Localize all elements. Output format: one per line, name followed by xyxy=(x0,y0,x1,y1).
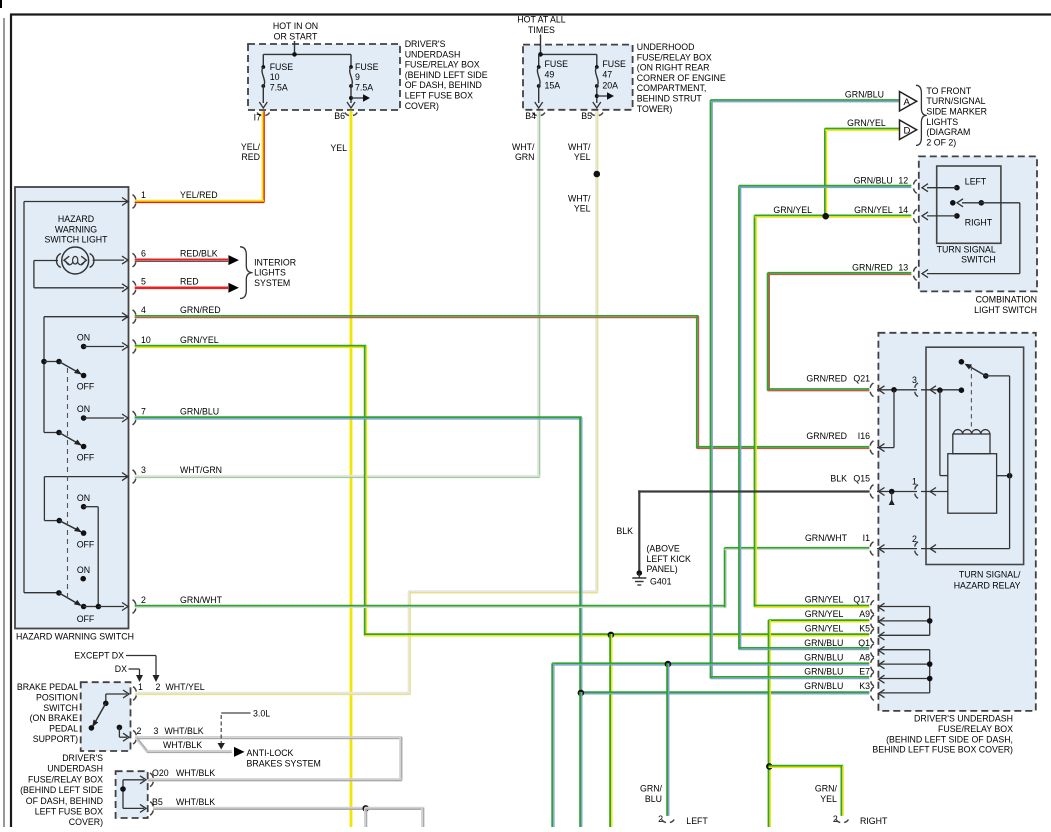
combination light switch box xyxy=(919,156,1037,291)
svg-text:GRN/YEL: GRN/YEL xyxy=(847,118,886,128)
svg-text:2: 2 xyxy=(156,682,161,692)
triangle connector D xyxy=(900,120,917,140)
turn signal switch inner box xyxy=(937,166,1001,243)
switch 1 (pin 10) xyxy=(41,333,128,392)
fuse 10 7.5A xyxy=(261,54,293,103)
svg-text:PEDAL: PEDAL xyxy=(49,724,78,734)
svg-text:DRIVER'S: DRIVER'S xyxy=(62,753,103,763)
wire GRN/RED pin 13 xyxy=(768,273,912,391)
svg-text:LIGHT SWITCH: LIGHT SWITCH xyxy=(974,305,1037,315)
wire GRN/BLU A8 down + rear left xyxy=(552,663,869,828)
svg-text:BEHIND LEFT FUSE BOX COVER): BEHIND LEFT FUSE BOX COVER) xyxy=(872,745,1013,755)
switch 3 (pin 3) xyxy=(44,493,98,607)
svg-text:LIGHTS: LIGHTS xyxy=(254,268,286,278)
connector K5 xyxy=(805,624,885,643)
svg-text:2: 2 xyxy=(658,814,663,824)
driver underdash fuse/relay box (top) xyxy=(248,44,400,110)
svg-text:GRN/BLU: GRN/BLU xyxy=(804,652,843,662)
svg-text:FUSE/RELAY BOX: FUSE/RELAY BOX xyxy=(405,60,480,70)
wire RED/BLK pin 6 to interior lights xyxy=(135,255,239,265)
connector 13 xyxy=(852,263,917,281)
driver underdash fuse/relay box (right, with relay) xyxy=(878,333,1035,711)
connector O20 xyxy=(150,768,215,787)
svg-text:RIGHT: RIGHT xyxy=(965,218,993,228)
svg-text:2: 2 xyxy=(141,595,146,605)
hazard pin 7 connector + label GRN/BLU xyxy=(133,407,220,425)
svg-text:B4: B4 xyxy=(525,111,536,121)
svg-text:DX: DX xyxy=(115,664,127,674)
svg-text:I7: I7 xyxy=(254,113,261,123)
svg-text:14: 14 xyxy=(898,205,908,215)
svg-text:GRN/RED: GRN/RED xyxy=(180,305,221,315)
junction GRN/YEL rear right xyxy=(766,763,843,816)
label TO FRONT TURN/SIGNAL SIDE MARKER LIGHTS xyxy=(926,86,987,147)
svg-text:BRAKE PEDAL: BRAKE PEDAL xyxy=(17,682,78,692)
svg-text:4: 4 xyxy=(141,305,146,315)
svg-text:YEL/RED: YEL/RED xyxy=(180,190,218,200)
svg-text:PANEL): PANEL) xyxy=(647,564,678,574)
hazard pin 4 connector + label GRN/RED xyxy=(133,305,221,323)
wire GRN/BLU to connector A xyxy=(710,100,898,679)
fuse 47 20A xyxy=(595,54,626,103)
connector 14 xyxy=(773,205,916,223)
connector Q21 xyxy=(806,374,917,448)
hazard pin 6 connector + label RED/BLK xyxy=(133,249,218,267)
connector 2 rear LEFT xyxy=(658,814,708,826)
turn signal LEFT contact xyxy=(922,177,987,192)
svg-text:Q17: Q17 xyxy=(853,595,870,605)
connector B4 xyxy=(525,102,545,121)
svg-text:FUSE/RELAY BOX: FUSE/RELAY BOX xyxy=(637,52,712,62)
svg-text:EXCEPT DX: EXCEPT DX xyxy=(74,651,124,661)
connector 12 xyxy=(854,176,917,194)
feed wire underhood xyxy=(538,35,597,57)
wire GRN/RED pin 4 to I16 (end) + connector I16 xyxy=(806,431,894,454)
label GRN/BLU (A) xyxy=(845,90,884,100)
svg-text:49: 49 xyxy=(545,70,555,80)
hazard pin 3 connector + label WHT/GRN xyxy=(133,465,223,483)
brake pedal position switch box xyxy=(81,682,131,751)
svg-text:BLK: BLK xyxy=(830,474,847,484)
svg-text:E7: E7 xyxy=(859,667,870,677)
svg-text:SUPPORT): SUPPORT) xyxy=(33,734,78,744)
svg-text:3: 3 xyxy=(154,726,159,736)
ground G401 xyxy=(632,570,646,585)
svg-text:FUSE/RELAY BOX: FUSE/RELAY BOX xyxy=(28,774,103,784)
svg-text:2 OF 2): 2 OF 2) xyxy=(926,137,956,147)
wire GRN/YEL pin 14 xyxy=(754,213,911,607)
label WHT/GRN vertical xyxy=(512,142,535,162)
turn signal hazard relay inner box xyxy=(926,347,1024,564)
underhood fuse/relay box xyxy=(523,45,633,110)
svg-text:WHT/BLK: WHT/BLK xyxy=(165,726,204,736)
svg-text:(BEHIND LEFT SIDE OF DASH,: (BEHIND LEFT SIDE OF DASH, xyxy=(886,734,1013,744)
wire BLK Q15 ground xyxy=(638,490,869,574)
relay bracket Q17-A9-K5 xyxy=(879,607,933,636)
wire GRN/YEL Q17 from pin 14 riser xyxy=(754,606,869,608)
underdash box internals xyxy=(120,776,146,813)
hazard pin 2 connector + label GRN/WHT xyxy=(133,595,223,613)
svg-text:YEL: YEL xyxy=(330,143,347,153)
svg-text:YEL: YEL xyxy=(574,152,591,162)
wire WHT/BLK from B5 heading down xyxy=(153,805,424,828)
svg-text:(BEHIND LEFT SIDE: (BEHIND LEFT SIDE xyxy=(405,70,488,80)
svg-text:TO FRONT: TO FRONT xyxy=(926,86,971,96)
relay pin 3 xyxy=(912,375,964,397)
svg-text:TURN/SIGNAL: TURN/SIGNAL xyxy=(926,96,985,106)
connector A8 xyxy=(804,652,884,671)
connector Q17 xyxy=(805,595,885,614)
svg-text:12: 12 xyxy=(898,176,908,186)
feed wire from HOT label xyxy=(263,41,351,57)
svg-text:ON: ON xyxy=(77,404,90,414)
caption driver underdash fuse box xyxy=(405,39,488,111)
brace interior lights xyxy=(240,247,253,299)
hazard pin 10 connector + label GRN/YEL xyxy=(133,335,219,353)
svg-text:LIGHTS: LIGHTS xyxy=(926,117,958,127)
svg-text:7.5A: 7.5A xyxy=(355,82,373,92)
svg-text:3: 3 xyxy=(141,465,146,475)
label INTERIOR LIGHTS SYSTEM xyxy=(254,257,296,288)
wire YEL/RED from I7 to hazard pin 1 xyxy=(135,111,265,202)
relay pin 2 xyxy=(912,534,936,555)
svg-text:(BEHIND LEFT SIDE: (BEHIND LEFT SIDE xyxy=(20,785,103,795)
svg-text:13: 13 xyxy=(898,263,908,273)
turn signal feed line to pin 13 xyxy=(922,203,1020,278)
switch 2 (pin 7) xyxy=(44,404,128,463)
svg-text:OR START: OR START xyxy=(274,31,318,41)
svg-text:(ON RIGHT REAR: (ON RIGHT REAR xyxy=(637,63,710,73)
wire GRN/YEL to connector D xyxy=(825,128,899,217)
svg-text:YEL: YEL xyxy=(574,204,591,214)
connector B6 xyxy=(334,102,357,121)
svg-text:GRN/BLU: GRN/BLU xyxy=(845,90,884,100)
svg-text:9: 9 xyxy=(355,72,360,82)
svg-text:FUSE: FUSE xyxy=(270,62,294,72)
svg-text:A9: A9 xyxy=(859,609,870,619)
svg-text:TIMES: TIMES xyxy=(528,25,555,35)
brake switch connector pins 1/2 xyxy=(133,682,205,700)
svg-text:OFF: OFF xyxy=(77,382,95,392)
connector I1 xyxy=(805,533,917,555)
svg-text:GRN/YEL: GRN/YEL xyxy=(805,595,844,605)
svg-text:WHT/: WHT/ xyxy=(568,142,591,152)
label BLK xyxy=(616,526,633,536)
svg-text:BEHIND STRUT: BEHIND STRUT xyxy=(637,94,703,104)
label GRN/BLU rear left xyxy=(640,784,663,804)
svg-text:GRN/RED: GRN/RED xyxy=(806,374,847,384)
wire GRN/WHT pin 2 to I1 xyxy=(135,548,870,608)
wire WHT/GRN from B4 to hazard pin 3 xyxy=(135,111,540,477)
wire WHT/BLK brake switch to ABS and O20 xyxy=(135,737,402,781)
wire GRN/BLU Q1 from pin 12 riser xyxy=(739,648,869,650)
pin 3 internal wire xyxy=(44,473,128,521)
label WHT/YEL lower xyxy=(568,194,591,214)
svg-text:Q21: Q21 xyxy=(853,374,870,384)
svg-text:ON: ON xyxy=(77,565,90,575)
svg-text:1: 1 xyxy=(141,190,146,200)
wire GRN/RED pin 4 to I16 xyxy=(135,316,870,449)
wire YEL from B6 down off page xyxy=(350,111,353,829)
label ANTI-LOCK BRAKES SYSTEM xyxy=(247,748,321,768)
svg-text:GRN/BLU: GRN/BLU xyxy=(804,681,843,691)
svg-text:UNDERHOOD: UNDERHOOD xyxy=(637,42,695,52)
svg-text:TURN SIGNAL/: TURN SIGNAL/ xyxy=(959,570,1021,580)
fuse 9 branch arrow xyxy=(349,94,370,102)
svg-text:6: 6 xyxy=(141,249,146,259)
junction WHT/YEL xyxy=(594,171,601,178)
svg-text:ON: ON xyxy=(77,333,90,343)
connector B5 xyxy=(581,102,603,121)
connector K3 xyxy=(804,681,884,700)
svg-text:WHT/BLK: WHT/BLK xyxy=(176,768,215,778)
wire WHT/YEL from B5 to brake pedal switch xyxy=(135,111,598,694)
arrow anti-lock brakes system xyxy=(234,747,245,757)
label HOT IN ON OR START xyxy=(273,21,318,41)
svg-text:3.0L: 3.0L xyxy=(253,709,270,719)
svg-text:LEFT FUSE BOX: LEFT FUSE BOX xyxy=(35,807,103,817)
svg-text:GRN/BLU: GRN/BLU xyxy=(804,638,843,648)
svg-text:47: 47 xyxy=(602,70,612,80)
svg-text:1: 1 xyxy=(912,477,917,487)
svg-text:10: 10 xyxy=(270,72,280,82)
svg-text:15A: 15A xyxy=(545,80,561,90)
relay bracket Q1-A8-E7-K3 xyxy=(879,650,933,693)
junction GRN/BLU K3 branch down xyxy=(578,690,585,828)
svg-text:INTERIOR: INTERIOR xyxy=(254,257,296,267)
svg-text:B6: B6 xyxy=(334,111,345,121)
svg-text:7.5A: 7.5A xyxy=(270,82,288,92)
svg-text:SWITCH: SWITCH xyxy=(43,703,78,713)
hazard warning switch box xyxy=(15,187,129,629)
svg-text:FUSE: FUSE xyxy=(355,62,379,72)
label DX xyxy=(115,664,143,682)
svg-text:GRN/: GRN/ xyxy=(640,784,663,794)
driver underdash fuse/relay box (bottom) xyxy=(116,771,148,818)
svg-text:GRN: GRN xyxy=(515,152,535,162)
svg-text:(ON BRAKE: (ON BRAKE xyxy=(30,713,79,723)
relay coil xyxy=(953,430,990,454)
wire GRN/YEL A9 riser to rear right xyxy=(768,620,869,828)
label ABOVE LEFT KICK PANEL G401 xyxy=(647,544,691,587)
svg-text:OF DASH, BEHIND: OF DASH, BEHIND xyxy=(26,796,103,806)
switch 4 (pin 2) xyxy=(24,565,128,624)
svg-text:HOT IN ON: HOT IN ON xyxy=(273,21,318,31)
svg-text:HAZARD RELAY: HAZARD RELAY xyxy=(954,580,1021,590)
svg-text:UNDERDASH: UNDERDASH xyxy=(405,49,461,59)
relay switch xyxy=(959,359,1010,429)
svg-text:RED/BLK: RED/BLK xyxy=(180,249,218,259)
wire GRN/BLU E7 from connector A riser xyxy=(710,677,869,679)
svg-text:GRN/YEL: GRN/YEL xyxy=(773,205,812,215)
svg-text:(ABOVE: (ABOVE xyxy=(647,544,680,554)
connector Q15 xyxy=(830,474,917,506)
svg-text:I1: I1 xyxy=(863,533,870,543)
svg-text:OF DASH, BEHIND: OF DASH, BEHIND xyxy=(405,80,482,90)
svg-text:Q1: Q1 xyxy=(858,638,870,648)
label YEL/RED vertical xyxy=(241,142,261,162)
svg-text:COMBINATION: COMBINATION xyxy=(976,295,1037,305)
svg-text:SWITCH LIGHT: SWITCH LIGHT xyxy=(44,235,108,245)
connector A9 xyxy=(805,609,885,628)
brake switch connector pins 2/3 xyxy=(133,726,204,744)
svg-text:GRN/YEL: GRN/YEL xyxy=(805,624,844,634)
svg-text:20A: 20A xyxy=(602,80,618,90)
svg-text:FUSE/RELAY BOX: FUSE/RELAY BOX xyxy=(938,724,1013,734)
svg-text:WHT/BLK: WHT/BLK xyxy=(176,797,215,807)
svg-text:WARNING: WARNING xyxy=(55,224,97,234)
brace to front lights xyxy=(916,85,927,145)
label WHT/YEL upper xyxy=(568,142,591,162)
svg-text:LEFT: LEFT xyxy=(965,177,987,187)
wire RED pin 5 to interior lights xyxy=(135,283,239,293)
caption underhood fuse box xyxy=(637,42,726,114)
svg-text:GRN/WHT: GRN/WHT xyxy=(180,595,223,605)
svg-text:RIGHT: RIGHT xyxy=(860,816,888,826)
label WHT/BLK lower xyxy=(163,740,202,750)
label HAZARD WARNING SWITCH xyxy=(16,632,134,642)
svg-text:WHT/: WHT/ xyxy=(568,194,591,204)
svg-text:D: D xyxy=(904,125,911,136)
svg-text:RED: RED xyxy=(180,276,199,286)
svg-text:SWITCH: SWITCH xyxy=(961,255,996,265)
connector Q1 xyxy=(804,638,884,657)
svg-text:2: 2 xyxy=(833,814,838,824)
svg-text:2: 2 xyxy=(137,726,142,736)
svg-text:YEL: YEL xyxy=(820,794,837,804)
label 3.0L callout xyxy=(218,709,271,750)
svg-text:1: 1 xyxy=(138,682,143,692)
wire GRN/BLU pin 7 to K3 xyxy=(135,417,870,694)
turn signal RIGHT contact xyxy=(922,212,993,228)
svg-text:LEFT KICK: LEFT KICK xyxy=(647,554,691,564)
triangle connector A xyxy=(900,92,917,112)
svg-text:HAZARD WARNING SWITCH: HAZARD WARNING SWITCH xyxy=(16,632,134,642)
svg-text:OFF: OFF xyxy=(77,614,95,624)
svg-text:UNDERDASH: UNDERDASH xyxy=(47,764,103,774)
svg-text:COVER): COVER) xyxy=(69,817,103,827)
hazard pin 1 connector + label YEL/RED xyxy=(133,190,218,208)
svg-text:YEL/: YEL/ xyxy=(241,142,261,152)
svg-text:LEFT FUSE BOX: LEFT FUSE BOX xyxy=(405,91,473,101)
pin 4 internal wire and switch bus xyxy=(44,313,129,433)
svg-text:GRN/BLU: GRN/BLU xyxy=(804,667,843,677)
svg-text:RED: RED xyxy=(241,152,260,162)
fuse 47 branch arrow xyxy=(595,92,614,100)
svg-text:B5: B5 xyxy=(152,797,163,807)
svg-text:WHT/YEL: WHT/YEL xyxy=(166,682,205,692)
svg-text:POSITION: POSITION xyxy=(36,692,78,702)
junction GRN/YEL K5 branch down xyxy=(608,632,615,828)
svg-text:OFF: OFF xyxy=(77,540,95,550)
svg-text:GRN/YEL: GRN/YEL xyxy=(180,335,219,345)
svg-text:GRN/BLU: GRN/BLU xyxy=(180,407,219,417)
svg-text:O20: O20 xyxy=(152,768,169,778)
svg-text:FUSE: FUSE xyxy=(545,59,569,69)
svg-text:GRN/WHT: GRN/WHT xyxy=(805,533,848,543)
svg-text:HOT AT ALL: HOT AT ALL xyxy=(517,15,566,25)
svg-text:TURN SIGNAL: TURN SIGNAL xyxy=(937,244,996,254)
svg-text:SIDE MARKER: SIDE MARKER xyxy=(926,107,987,117)
svg-text:GRN/BLU: GRN/BLU xyxy=(854,176,893,186)
svg-text:10: 10 xyxy=(141,335,151,345)
svg-text:FUSE: FUSE xyxy=(602,59,626,69)
svg-text:DRIVER'S UNDERDASH: DRIVER'S UNDERDASH xyxy=(914,714,1013,724)
label EXCEPT DX xyxy=(74,651,159,683)
bulb hazard switch light xyxy=(56,247,94,274)
fuse 9 7.5A xyxy=(349,54,378,103)
wire GRN/YEL pin 10 to K5 xyxy=(135,346,870,636)
mechanical link dashed line xyxy=(67,368,69,600)
brake switch internals xyxy=(89,690,129,741)
bulb wiring to pins 6 and 5 xyxy=(34,256,128,292)
turn signal common arm xyxy=(950,199,984,207)
svg-text:COMPARTMENT,: COMPARTMENT, xyxy=(637,83,707,93)
label COMBINATION LIGHT SWITCH xyxy=(974,295,1037,315)
svg-text:GRN/RED: GRN/RED xyxy=(852,263,893,273)
svg-text:BLU: BLU xyxy=(645,794,662,804)
svg-text:BRAKES SYSTEM: BRAKES SYSTEM xyxy=(247,759,321,769)
svg-text:OFF: OFF xyxy=(77,453,95,463)
svg-text:GRN/YEL: GRN/YEL xyxy=(805,609,844,619)
hazard pin 5 connector + label RED xyxy=(133,276,199,294)
label HAZARD WARNING SWITCH LIGHT xyxy=(44,214,108,245)
svg-text:GRN/RED: GRN/RED xyxy=(806,431,847,441)
svg-text:SYSTEM: SYSTEM xyxy=(254,278,290,288)
svg-text:COVER): COVER) xyxy=(405,101,439,111)
svg-text:K5: K5 xyxy=(859,624,870,634)
svg-text:7: 7 xyxy=(141,407,146,417)
label TURN SIGNAL SWITCH xyxy=(937,244,996,264)
svg-text:G401: G401 xyxy=(650,577,672,587)
caption brake pedal position switch xyxy=(17,682,78,744)
connector 2 rear RIGHT xyxy=(833,814,888,826)
connector I7 xyxy=(254,102,270,123)
svg-text:BLK: BLK xyxy=(616,526,633,536)
relay pin 1 xyxy=(912,477,948,499)
caption driver underdash (bottom) xyxy=(20,753,103,827)
fuse 49 15A xyxy=(537,54,568,103)
svg-text:Q15: Q15 xyxy=(853,474,870,484)
caption driver underdash (right) xyxy=(872,714,1013,755)
svg-text:LEFT: LEFT xyxy=(686,816,708,826)
svg-text:ON: ON xyxy=(77,493,90,503)
pin 1 internal wire and left bus xyxy=(24,198,129,593)
svg-text:TOWER): TOWER) xyxy=(637,104,673,114)
svg-text:GRN/YEL: GRN/YEL xyxy=(854,205,893,215)
svg-text:HAZARD: HAZARD xyxy=(58,214,94,224)
svg-text:I16: I16 xyxy=(858,431,870,441)
wire GRN/BLU pin 12 xyxy=(739,186,911,650)
svg-text:A8: A8 xyxy=(859,652,870,662)
svg-text:WHT/: WHT/ xyxy=(512,142,535,152)
svg-text:K3: K3 xyxy=(859,681,870,691)
svg-text:WHT/BLK: WHT/BLK xyxy=(163,740,202,750)
svg-text:WHT/GRN: WHT/GRN xyxy=(180,465,222,475)
label TURN SIGNAL / HAZARD RELAY xyxy=(954,570,1021,591)
svg-text:DRIVER'S: DRIVER'S xyxy=(405,39,446,49)
svg-text:B5: B5 xyxy=(581,111,592,121)
relay body box xyxy=(948,454,997,514)
svg-text:GRN/: GRN/ xyxy=(815,784,838,794)
label HOT AT ALL TIMES xyxy=(517,15,566,35)
connector E7 xyxy=(804,667,884,686)
label GRN/YEL rear right xyxy=(815,784,838,804)
svg-text:5: 5 xyxy=(141,276,146,286)
label GRN/YEL (D) xyxy=(847,118,886,128)
svg-text:(DIAGRAM: (DIAGRAM xyxy=(926,127,970,137)
label YEL xyxy=(330,143,347,153)
